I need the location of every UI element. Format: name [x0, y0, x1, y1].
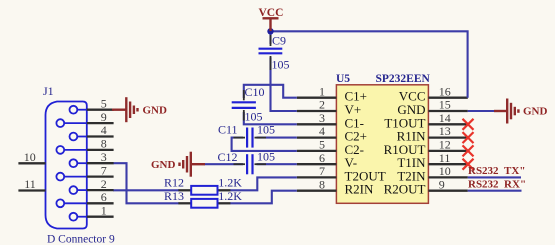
- svg-text:RS232 RX": RS232 RX": [468, 179, 526, 191]
- svg-text:1.2K: 1.2K: [218, 189, 242, 203]
- svg-text:16: 16: [439, 84, 451, 98]
- svg-text:4: 4: [319, 124, 325, 138]
- svg-text:GND: GND: [143, 105, 168, 117]
- svg-text:5: 5: [101, 96, 107, 110]
- svg-text:C10: C10: [245, 85, 265, 99]
- svg-text:2: 2: [319, 98, 325, 112]
- svg-text:U5: U5: [336, 73, 350, 85]
- svg-text:7: 7: [319, 164, 325, 178]
- svg-text:R12: R12: [164, 176, 184, 190]
- svg-text:105: 105: [257, 149, 275, 163]
- svg-text:105: 105: [257, 122, 275, 136]
- svg-text:1.2K: 1.2K: [218, 176, 242, 190]
- svg-text:6: 6: [319, 151, 325, 165]
- svg-text:3: 3: [101, 150, 107, 164]
- svg-text:R2OUT: R2OUT: [384, 182, 426, 197]
- svg-text:10: 10: [439, 164, 451, 178]
- svg-text:4: 4: [101, 123, 107, 137]
- svg-text:105: 105: [272, 57, 290, 71]
- svg-text:GND: GND: [151, 159, 176, 171]
- svg-text:1: 1: [101, 203, 107, 217]
- svg-text:VCC: VCC: [259, 7, 284, 19]
- svg-text:SP232EEN: SP232EEN: [376, 73, 431, 85]
- svg-text:R2IN: R2IN: [345, 182, 375, 197]
- svg-text:C9: C9: [272, 33, 286, 47]
- svg-text:3: 3: [319, 111, 325, 125]
- svg-text:13: 13: [439, 124, 451, 138]
- svg-text:5: 5: [319, 138, 325, 152]
- svg-text:1: 1: [319, 84, 325, 98]
- svg-text:2: 2: [101, 177, 107, 191]
- svg-text:C11: C11: [218, 122, 238, 136]
- svg-text:7: 7: [101, 163, 107, 177]
- svg-text:9: 9: [101, 110, 107, 124]
- svg-text:8: 8: [319, 177, 325, 191]
- svg-text:D Connector 9: D Connector 9: [47, 233, 115, 245]
- svg-text:GND: GND: [523, 106, 548, 118]
- svg-text:14: 14: [439, 111, 451, 125]
- svg-text:9: 9: [439, 177, 445, 191]
- svg-text:12: 12: [439, 138, 451, 152]
- svg-text:105: 105: [245, 109, 263, 123]
- svg-text:C12: C12: [218, 150, 238, 164]
- svg-text:11: 11: [24, 177, 36, 191]
- svg-text:8: 8: [101, 137, 107, 151]
- svg-text:11: 11: [439, 151, 451, 165]
- svg-text:RS232 TX": RS232 TX": [468, 165, 525, 177]
- svg-text:R13: R13: [164, 189, 184, 203]
- svg-text:J1: J1: [43, 84, 54, 98]
- svg-text:10: 10: [24, 150, 36, 164]
- svg-text:6: 6: [101, 190, 107, 204]
- svg-text:15: 15: [439, 98, 451, 112]
